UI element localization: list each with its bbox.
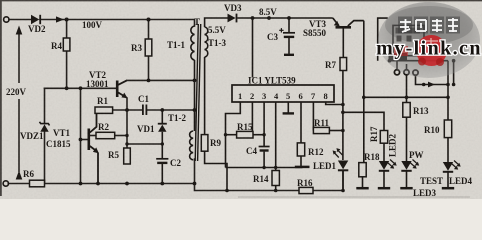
pin 1 lead	[226, 102, 241, 168]
LED2 terminal bar	[378, 187, 390, 190]
LED1	[333, 148, 349, 190]
pin 7 lead	[312, 102, 314, 131]
wire top rail left	[9, 19, 31, 21]
hanzi 2	[416, 19, 426, 21]
resistor R7	[340, 58, 347, 71]
resistor R15	[226, 131, 265, 138]
wire rail to IC pin2 top	[252, 18, 254, 78]
LED2	[379, 160, 397, 188]
LED4	[443, 161, 461, 188]
pin 3 lead	[263, 102, 265, 146]
pin 2 lead	[251, 102, 253, 131]
transistor VT2	[117, 80, 127, 97]
wire bottom rail	[8, 183, 29, 185]
wire T1-1 bottom to T1-2 top	[194, 60, 196, 131]
hanzi 4	[448, 19, 458, 21]
wire W row y97	[364, 96, 448, 98]
wire arrow on 84.5 row	[428, 82, 435, 88]
transistor VT1	[89, 113, 98, 184]
resistor R6	[30, 180, 45, 187]
wire T1-3 top to VD3	[205, 18, 228, 27]
wire middle pin to R13	[406, 75, 408, 103]
wire R2 leads	[90, 135, 96, 137]
node R3 top	[147, 18, 151, 22]
connector pin stubs	[397, 61, 407, 70]
resistor R11	[313, 127, 329, 133]
capacitor C1	[143, 105, 147, 116]
resistor R17	[380, 131, 387, 144]
LED4 terminal bar	[442, 187, 454, 190]
junction dots right section	[225, 59, 455, 192]
wire mid vertical branch	[80, 88, 82, 183]
wire node row under IC	[226, 167, 303, 169]
resistor R12	[297, 143, 304, 156]
wire R18 bottom stub	[362, 177, 364, 188]
diode VD3	[228, 14, 238, 23]
wire right pin to R10 column	[416, 75, 449, 84]
resistor R4 leads	[66, 20, 68, 39]
resistor R16	[299, 187, 313, 193]
wire R10 column vertical	[447, 61, 449, 120]
wire top rail to transformer	[40, 20, 195, 27]
wire VD1 node to R5	[127, 143, 162, 145]
resistor R10	[444, 120, 451, 138]
LED3 terminal bar	[400, 187, 412, 190]
wire VT2 emitter down	[126, 98, 128, 148]
watermark seal glyph marks	[424, 38, 438, 48]
wire short right vertical	[453, 61, 455, 85]
terminal bottom-left	[3, 181, 8, 186]
junction dots under IC	[224, 103, 345, 193]
terminal top-left	[4, 17, 9, 22]
diode VD1	[158, 110, 167, 144]
transistor VT3	[333, 18, 364, 58]
resistor R3	[145, 39, 152, 56]
220V label backing	[6, 84, 32, 98]
resistor R1	[95, 107, 113, 113]
svg-text:my-link.cn: my-link.cn	[376, 38, 482, 60]
pin 8 lead	[326, 102, 343, 105]
connector dark parts	[389, 28, 421, 61]
wire VT1 base	[81, 139, 88, 141]
zener VDZ1	[40, 122, 50, 132]
pin numbers 1-8	[238, 91, 328, 101]
faint scan line bottom	[238, 196, 470, 198]
connector pin circles	[394, 70, 418, 75]
wire R10 to LED4	[447, 138, 449, 162]
node dots on 8.5V rail	[251, 16, 291, 20]
transformer T core	[195, 24, 201, 161]
wire row under connector box	[388, 60, 448, 62]
transformer winding T1-1	[191, 26, 195, 60]
resistor R9	[201, 135, 208, 152]
junction dots left section	[65, 79, 197, 186]
pin 5 lead	[287, 102, 289, 113]
diode VD2	[31, 15, 41, 24]
pin 4 lead	[275, 102, 277, 171]
watermark hanzi 我的链接 (drawn strokes)	[398, 17, 460, 34]
wire stub top-right	[378, 18, 388, 61]
connector box top-right	[393, 25, 424, 55]
capacitor C4	[259, 147, 270, 168]
wire R1/C1 row	[113, 109, 142, 111]
resistor R4	[63, 38, 70, 51]
resistor R5	[124, 148, 131, 164]
watermark red seal	[416, 35, 447, 66]
wire VT2 collector to R3 node	[127, 79, 194, 81]
hanzi 1	[400, 21, 411, 23]
wire T1-3 bottom to R9	[204, 57, 206, 135]
wire lower rail under IC	[195, 159, 300, 191]
wire R17 to LED2	[383, 143, 385, 161]
wire 8.5V rail	[237, 17, 332, 19]
IC pin leads	[226, 102, 343, 171]
wire V1 vertical R7 to LED1	[342, 71, 344, 161]
LED3	[401, 160, 419, 188]
resistor R13	[403, 103, 410, 118]
pin 6 lead	[300, 102, 302, 143]
wire R14 bottom	[275, 186, 277, 191]
watermark disc	[378, 2, 480, 78]
wire pin8 row to R17	[343, 112, 384, 130]
pin 5 terminal bar	[283, 112, 294, 114]
transformer winding T1-2	[190, 131, 194, 160]
op-amp U1 IC1 box	[232, 85, 334, 102]
transformer winding T1-3	[205, 27, 208, 57]
resistor R18	[359, 163, 366, 177]
wire arrow on top rail	[56, 16, 64, 22]
resistor R3 leads	[148, 20, 150, 40]
R18 terminal bar	[356, 187, 368, 190]
R12 terminal bar	[295, 166, 310, 169]
wire VT2 base	[45, 87, 117, 89]
wire R11 right to V1	[329, 130, 343, 132]
wire R12 bottom	[300, 156, 302, 167]
capacitor C2	[156, 144, 168, 184]
wire zener branch	[44, 88, 46, 123]
node R4 top	[65, 18, 69, 22]
wire R13 to LED3	[406, 117, 408, 161]
hanzi 3	[432, 20, 442, 22]
resistor R2	[96, 132, 115, 138]
wire V2 VT3 collector down	[363, 21, 365, 163]
resistor R14	[272, 171, 279, 186]
capacitor C3	[279, 18, 295, 55]
wire R9 bottom to lower rail	[205, 151, 227, 190]
220V measure arrow	[16, 26, 23, 180]
